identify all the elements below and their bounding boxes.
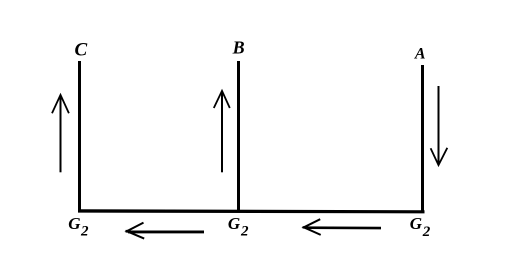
- node G2 right label: [410, 214, 431, 240]
- node G2 left label: [68, 214, 89, 240]
- current arrow up beside C: [52, 95, 69, 172]
- svg-text:2: 2: [422, 224, 431, 240]
- svg-text:B: B: [232, 38, 245, 58]
- wire: vertical conductor C: [78, 61, 81, 212]
- wire: bottom horizontal bus G2: [78, 209, 425, 213]
- svg-text:C: C: [75, 39, 88, 60]
- svg-text:2: 2: [240, 224, 249, 240]
- wire: vertical conductor B: [237, 61, 240, 212]
- current arrow down beside A: [431, 86, 448, 165]
- svg-text:2: 2: [80, 224, 89, 240]
- svg-text:G: G: [228, 214, 241, 233]
- current arrow up beside B: [214, 91, 230, 172]
- node G2 middle label: [228, 214, 249, 240]
- current arrow left (between middle and right G2): [303, 219, 381, 235]
- wire: vertical conductor A: [421, 65, 424, 213]
- current arrow left (between left and middle G2): [126, 223, 204, 239]
- svg-text:A: A: [414, 45, 426, 62]
- svg-text:G: G: [410, 214, 423, 233]
- svg-text:G: G: [68, 214, 81, 233]
